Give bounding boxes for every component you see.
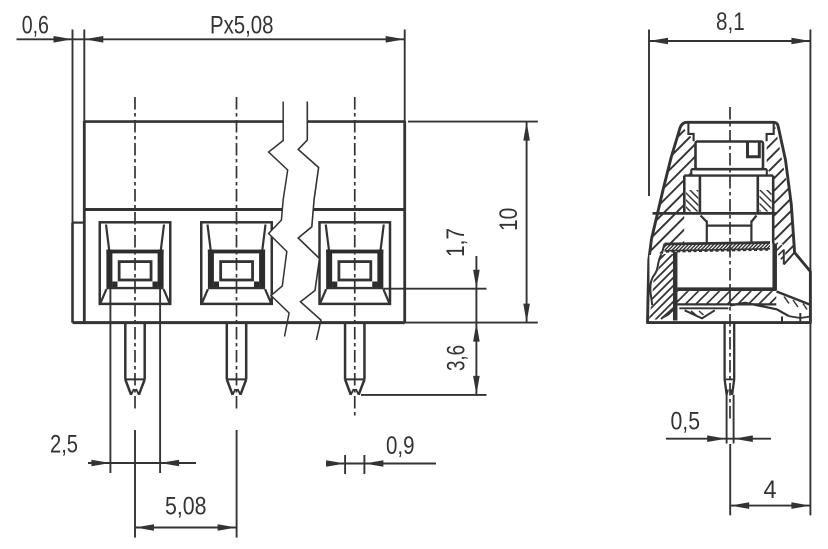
- svg-text:0,9: 0,9: [386, 432, 415, 460]
- dimension 1,7: [383, 256, 486, 395]
- solder pin 1: [125, 324, 144, 395]
- dimension 10: [405, 122, 538, 323]
- terminal chamber 1: [100, 222, 171, 304]
- svg-text:0,5: 0,5: [671, 408, 701, 436]
- terminal chamber 2: [201, 222, 272, 304]
- dimension 4: [730, 444, 810, 515]
- side view center line: [729, 107, 731, 421]
- front body bottom edge: [73, 321, 405, 324]
- break region blank-out: [269, 102, 321, 341]
- dimension 8,1: [649, 30, 810, 516]
- right foot: [777, 250, 811, 323]
- wire cage: [701, 216, 757, 243]
- center lines (dashed) of poles 1-3: [135, 97, 355, 419]
- solder pin 2: [227, 324, 246, 395]
- clamp body verticals: [684, 176, 773, 244]
- terminal chamber 3: [320, 222, 391, 304]
- svg-text:8,1: 8,1: [716, 8, 745, 36]
- side view pin: [725, 324, 735, 444]
- screw flange: [684, 169, 773, 175]
- svg-text:10: 10: [495, 208, 523, 231]
- side view body outline: [648, 122, 811, 322]
- dimension 3,6: [361, 376, 487, 395]
- break line right: [298, 102, 321, 341]
- solder pin 3: [345, 324, 364, 395]
- break line left: [269, 102, 290, 337]
- dimension 2,5: [88, 289, 196, 473]
- svg-text:1,7: 1,7: [442, 228, 470, 257]
- dimension 5,08: [135, 430, 237, 538]
- dimension 0,9: [326, 455, 436, 474]
- screw head: [696, 142, 764, 170]
- pin funnel: [679, 303, 789, 319]
- svg-text:0,6: 0,6: [22, 12, 49, 40]
- dimension line 0,6 / Px5,08 (top): [17, 30, 405, 223]
- svg-text:2,5: 2,5: [50, 431, 78, 459]
- screw slot: [748, 143, 760, 157]
- svg-text:Px5,08: Px5,08: [210, 12, 274, 40]
- lower cavity walls and floor: [675, 244, 776, 321]
- svg-text:4: 4: [764, 476, 777, 504]
- left pocket: [649, 254, 661, 305]
- dimension 0,5: [666, 435, 771, 442]
- svg-text:5,08: 5,08: [165, 493, 207, 521]
- front body outline: [73, 121, 405, 323]
- svg-text:3,6: 3,6: [442, 345, 470, 371]
- top lips: [688, 122, 773, 141]
- clamp crossbar: [653, 212, 777, 215]
